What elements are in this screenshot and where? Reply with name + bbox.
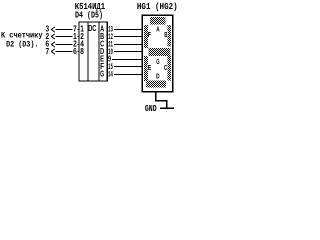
U1 output pin number 12 xyxy=(108,32,114,42)
arrowhead at counter pin 6 xyxy=(51,42,55,47)
ground bar xyxy=(160,107,174,109)
U1 input pin number 6 xyxy=(73,47,78,56)
wire HG1 common to ground xyxy=(156,92,167,109)
segment F bar xyxy=(144,25,148,48)
svg-text:G: G xyxy=(156,57,159,66)
svg-text:E: E xyxy=(148,63,151,72)
U1 output pin number 11 xyxy=(108,39,114,49)
U1 output pin number 10 xyxy=(108,47,114,57)
segment C bar xyxy=(167,56,171,81)
svg-text:6: 6 xyxy=(73,47,77,56)
svg-text:D: D xyxy=(156,72,160,81)
U1 input pin number 7 xyxy=(73,24,78,33)
svg-text:D2 (D3).: D2 (D3). xyxy=(6,40,38,50)
segment E bar xyxy=(144,56,148,81)
segment label B xyxy=(164,30,168,39)
wire U1 pin11 to HG1 segment C xyxy=(107,44,142,46)
svg-text:D4 (D5): D4 (D5) xyxy=(75,10,103,21)
svg-text:7: 7 xyxy=(46,47,50,56)
arrowhead at counter pin 3 xyxy=(51,27,55,32)
svg-text:C: C xyxy=(164,63,168,72)
svg-text:8: 8 xyxy=(80,47,84,56)
segment label E xyxy=(148,63,152,72)
wire U1 pin9 to HG1 segment E xyxy=(107,59,142,61)
U1 output pin number 14 xyxy=(108,69,114,79)
svg-text:14: 14 xyxy=(108,69,113,79)
wire U1 pin13 to HG1 segment A xyxy=(107,29,142,31)
U1 input pin number 1 xyxy=(73,32,78,41)
segment G bar xyxy=(148,48,170,56)
wire counter pin3 to U1 pin7 xyxy=(55,29,79,31)
wire counter pin6 to U1 pin2 xyxy=(55,44,79,46)
svg-text:A: A xyxy=(156,24,160,33)
indicator HG1 body xyxy=(142,15,172,92)
U1 input pin number 2 xyxy=(73,39,78,48)
wire U1 pin15 to HG1 segment F xyxy=(107,66,142,68)
wire counter pin7 to U1 pin6 xyxy=(55,51,79,53)
U1 output pin number 15 xyxy=(108,62,114,72)
U1 output pin number 9 xyxy=(108,54,112,63)
wire U1 pin10 to HG1 segment D xyxy=(107,51,142,53)
U1 output pin number 13 xyxy=(108,24,114,34)
U1 left field divider xyxy=(87,22,89,81)
segment B bar xyxy=(167,25,171,47)
wire counter pin2 to U1 pin1 xyxy=(55,36,79,38)
wire U1 pin14 to HG1 segment G xyxy=(107,74,142,76)
svg-text:B: B xyxy=(164,30,168,39)
svg-text:DC: DC xyxy=(88,24,96,33)
segment D bar xyxy=(146,81,166,88)
U1 right field divider xyxy=(98,22,100,81)
wire U1 pin12 to HG1 segment B xyxy=(107,36,142,38)
svg-text:GND: GND xyxy=(145,103,157,114)
svg-text:G: G xyxy=(100,69,104,78)
arrowhead at counter pin 7 xyxy=(51,49,55,54)
svg-text:HG1 (HG2): HG1 (HG2) xyxy=(137,1,178,12)
arrowhead at counter pin 2 xyxy=(51,34,55,39)
segment label C xyxy=(164,63,168,72)
decoder U1 (K514ID1) body xyxy=(79,22,107,81)
segment A bar xyxy=(150,17,166,25)
svg-text:F: F xyxy=(148,30,152,39)
